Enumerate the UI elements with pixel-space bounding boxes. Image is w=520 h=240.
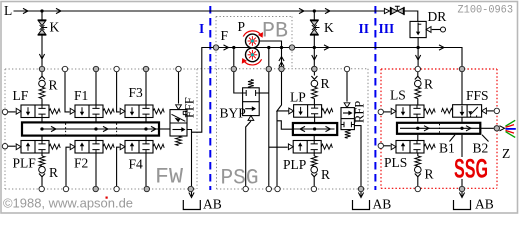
wire F3 supply [145,72,147,105]
port PLS drain [415,186,420,191]
node junction [232,46,235,49]
port PB bottom1 [231,66,236,71]
svg-text:F4: F4 [129,157,144,172]
port F2 drain [93,186,98,191]
wire pilot drop 277 [276,111,278,186]
svg-text:II: II [359,21,370,36]
relief valve R (PLS) [417,153,419,156]
svg-text:FFF: FFF [183,97,197,118]
port pump outlet [289,45,294,50]
throttle valve FFF top arrows [172,114,186,121]
wire PLS pilot [384,145,391,147]
nozzle arrow [500,126,505,131]
svg-text:K: K [324,20,334,35]
wire LF to bar [41,118,43,122]
svg-text:R: R [425,167,434,182]
coupling K2 [310,19,319,21]
wire top rail [14,11,418,21]
tank AB (FW) [189,193,194,198]
port LS pilot [378,109,383,114]
valve DR pilot [426,27,431,33]
section box SSG [381,68,497,70]
wire FFS to bar [461,117,463,122]
manifold bar FW [22,122,159,135]
port BYP pilot drain [243,186,248,191]
tank AB (PSG) [360,192,362,196]
tank AB (SSG) [461,192,463,196]
port FW inlet [39,66,44,71]
svg-text:AB: AB [203,197,222,212]
wire PLP pilot [269,146,288,148]
wire pump rail [219,47,289,49]
wire bar to PLF [41,137,43,141]
wire pump drop1 [233,48,235,67]
relief valve R (PLF) [41,153,43,156]
wire K1 down [41,36,43,67]
port F4 drain [144,186,149,191]
port PLP drain [311,186,316,191]
svg-text:DR: DR [428,9,447,24]
port PB bottom3 [279,66,284,71]
valve DR body [410,21,426,37]
svg-text:BYP: BYP [220,106,246,121]
svg-text:P: P [238,19,246,34]
manifold bar SSG [397,123,480,134]
port SSG tank [459,186,464,191]
svg-text:B1: B1 [439,141,455,156]
wire FFF out [187,130,192,187]
port RFP supply [344,66,349,71]
port FW tank [188,186,193,191]
wire center drop [268,72,270,186]
shut-off valve [391,8,397,14]
pump P rotor spokes [248,54,258,56]
valve FFS left arrow [461,106,463,113]
wire bar to F4 [145,137,147,141]
node junction DR [416,46,419,49]
svg-text:PLS: PLS [384,155,407,170]
port LF pilot [2,109,7,114]
pump P rotor spokes [248,40,258,42]
node junction K2 [313,9,316,12]
flow arrow [56,8,61,13]
port PB bottom2 [266,66,271,71]
port F1 pilot [62,66,67,71]
port FFF pilot [176,66,181,71]
wire F2 drain [95,153,97,186]
svg-text:FFS: FFS [466,88,489,103]
svg-text:FW: FW [155,163,184,189]
wire rail2 right [418,48,462,67]
svg-text:B2: B2 [473,141,489,156]
valve LP [294,105,322,118]
wire pump drop2 [268,48,270,67]
svg-text:I: I [199,21,204,36]
svg-text:Z: Z [502,146,510,161]
svg-text:SSG: SSG [454,154,488,184]
section box PB [216,16,292,18]
throttle valve FFF body [170,110,187,136]
svg-text:F3: F3 [129,85,144,100]
wire DR to port [417,48,419,67]
valve LS [396,105,424,118]
wire bar to FFF [160,128,170,130]
valve PLS [396,141,424,154]
section box FW [5,68,197,70]
wire suction F [192,48,214,133]
node junction K1 [40,9,43,12]
port F2 pilot [63,186,68,191]
port FFS pilot [494,108,499,113]
valve FFS proportional arrow [470,107,478,115]
svg-text:R: R [321,76,330,91]
valve F1 [75,105,103,118]
wire F1 supply [95,72,97,105]
nozzle spray [506,120,516,126]
port LP supply [312,66,317,71]
wire F4 pilot [117,147,120,186]
wire LP pilot [277,72,289,111]
svg-text:L: L [4,3,12,18]
section box PSG [197,68,368,70]
label B1 pointer [450,135,456,142]
port SSG supply [459,66,464,71]
wire PLF pilot [8,145,16,147]
wire RFP feed [346,72,348,102]
wire K2 down [313,36,315,48]
relief valve R (LS) [417,72,419,76]
wire LF pilot [8,111,16,113]
wire FFF pilot [178,72,180,104]
wire F3 to bar [145,118,147,122]
svg-text:AB: AB [475,197,494,212]
valve BYP blocked marks [243,90,247,96]
port F3 pilot [114,66,119,71]
relief valve R (PLP) [313,153,315,156]
wire LS pilot [384,111,391,113]
svg-text:R: R [49,78,58,93]
wire bar to F2 [95,137,97,141]
svg-text:R: R [49,165,58,180]
svg-text:R: R [321,167,330,182]
wire F4 drain [145,153,147,186]
svg-text:F1: F1 [74,88,88,103]
port PLF drain [39,186,44,191]
valve F2 [75,141,103,154]
wire F2 pilot [66,147,70,186]
svg-text:RFP: RFP [353,101,367,123]
wire pump drop3 [281,48,283,67]
svg-text:LF: LF [13,88,29,103]
valve BYP spring [248,80,254,88]
wire BYP out [259,92,269,94]
port PSG drain2 [266,186,271,191]
svg-text:R: R [424,77,433,92]
wire DR down [417,38,419,48]
pump P rotation arrow [244,59,262,65]
wire LS to bar [417,118,419,122]
valve F3 [125,105,153,118]
wire bar to PLP [313,136,315,141]
valve RFP pilot [344,103,350,108]
svg-text:F: F [221,28,229,43]
svg-text:LP: LP [290,90,306,105]
wire BYP pilot down [246,121,251,186]
red dot on apson.de [106,197,108,199]
svg-text:PSG: PSG [221,164,259,190]
port PSG drain3 [275,186,280,191]
throttle valve FFF pilot [176,105,182,110]
valve BYP pilot [248,116,254,121]
flow arrow [23,8,28,13]
svg-text:F2: F2 [74,156,88,171]
divider line I [209,6,211,190]
svg-text:PB: PB [262,17,288,43]
valve RFP spring [345,130,351,139]
valve FFS pilot [482,108,487,114]
svg-text:©1988, www.apson.de: ©1988, www.apson.de [3,196,133,211]
coupling K1 [38,19,47,21]
valve DR arrow [417,23,419,32]
node junction [280,46,283,49]
flow arrow [325,8,330,13]
wire K1 stem [41,11,43,20]
label B2 pointer [482,135,489,142]
wire rail2 [292,47,418,49]
node junction rail2-K2 [313,46,316,49]
wire F3 pilot [117,72,120,112]
valve PLP [293,141,321,154]
port SSG pilot-supply [415,66,420,71]
svg-text:K: K [50,20,60,35]
valve RFP arrow [343,112,350,114]
relief valve R (LF) [41,72,43,76]
svg-text:PLP: PLP [283,157,306,172]
wire LP to bar [314,117,316,122]
port PLF pilot [2,144,7,149]
valve FFS body [453,105,482,118]
port nozzle Z [494,126,499,131]
svg-text:AB: AB [373,197,392,212]
valve BYP body [243,88,260,116]
flow arrow [384,8,389,13]
port F4 pilot [114,186,119,191]
port PSG inlet [312,66,317,71]
divider line II/III [374,6,376,190]
valve BYP arrow [245,108,252,110]
port F1 supply [93,66,98,71]
wire BYP feed [234,72,243,93]
svg-text:Z100-0963: Z100-0963 [458,4,514,16]
wire F1 to bar [95,118,97,122]
port PLS pilot [378,143,383,148]
throttle valve FFF bottom arrow [173,129,183,131]
wire bar feed [277,121,293,129]
flow arrow [299,8,304,13]
valve F4 [125,141,153,154]
valve PLF [21,141,49,154]
wire K2 stem [313,11,315,20]
manifold bar PSG [293,123,337,135]
svg-text:LS: LS [390,88,406,103]
pump P gear circles [246,34,260,48]
valve LF [21,105,49,118]
svg-text:III: III [379,21,395,36]
port F3 supply [143,66,148,71]
port PSG tank [358,186,363,191]
throttle valve FFF spring [176,136,182,145]
pump P rotation arrow [243,31,261,37]
valve RFP body [341,108,354,130]
port pump inlet F [213,45,218,50]
wire RFP out [354,126,361,186]
valve FFS spring [441,108,452,113]
relief valve R (LP) [313,72,315,76]
wire bar to tank [461,135,463,157]
valve RFP blocked marks [341,122,344,127]
wire K2 to port [313,48,315,67]
node junction [267,46,270,49]
wire pump discharge [259,41,281,48]
wire bar to PLS [417,135,419,141]
svg-text:PLF: PLF [13,156,37,171]
wire F1 pilot [65,72,70,112]
wire FFS feed [461,72,463,105]
